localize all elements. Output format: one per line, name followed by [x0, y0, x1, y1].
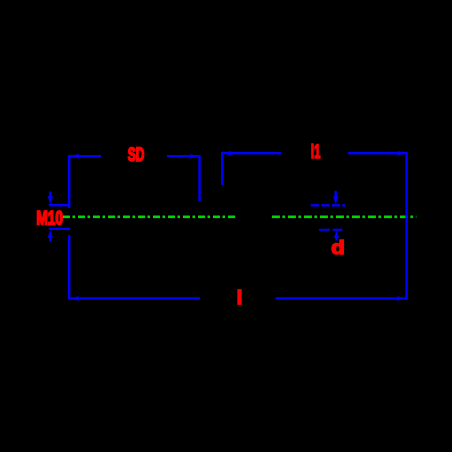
- dimension M10: bottom arrow tail: [49, 237, 51, 242]
- dimension SD: dimension line left segment: [68, 155, 101, 157]
- dimension d: top arrow tail: [335, 191, 337, 197]
- centerline left segment: [63, 216, 236, 219]
- dimension l: right arrowhead: [397, 296, 405, 301]
- dimension SD: right arrowhead: [190, 154, 198, 159]
- dimension l1: dimension line right segment: [348, 152, 408, 154]
- centerline right segment: [272, 216, 416, 219]
- dimension M10: bottom arrowhead (pointing up): [48, 230, 53, 238]
- dimension d: bottom arrow tail: [335, 237, 337, 241]
- dimension M10: bottom leader line: [49, 228, 71, 230]
- dimension l: dimension line right segment: [276, 297, 408, 299]
- svg-text:M10: M10: [36, 207, 63, 229]
- svg-text:SD: SD: [128, 145, 145, 165]
- dimension l: dimension line left segment: [68, 297, 200, 299]
- dimension l: left arrowhead: [71, 296, 79, 301]
- dimension d: top arrowhead (pointing down): [333, 196, 338, 204]
- dimension SD: left arrowhead: [71, 154, 79, 159]
- dimension l1: right arrowhead: [397, 151, 405, 156]
- dimension l1: left extension line: [221, 152, 223, 185]
- dimension l: left extension line: [68, 235, 70, 300]
- dimension d: bottom arrowhead (pointing up): [334, 231, 339, 239]
- dimension SD: dimension line right segment: [167, 155, 201, 157]
- dimension d: bottom edge line: [319, 229, 343, 231]
- dimension l1: dimension line left segment: [221, 152, 281, 154]
- dimension SD: left extension line: [68, 155, 70, 208]
- dimension l1 / l: right extension line: [405, 152, 407, 300]
- dimension M10: top arrowhead (pointing down): [48, 196, 53, 204]
- dimension l1: left arrowhead: [223, 151, 231, 156]
- dimension SD: right extension line: [198, 155, 200, 201]
- dimension M10: top leader line: [49, 204, 71, 206]
- dimension M10: top arrow tail: [49, 192, 51, 198]
- svg-text:d: d: [331, 237, 344, 258]
- svg-text:l1: l1: [311, 142, 321, 163]
- dimension d: top edge dashed line: [311, 204, 345, 206]
- svg-text:l: l: [237, 288, 242, 309]
